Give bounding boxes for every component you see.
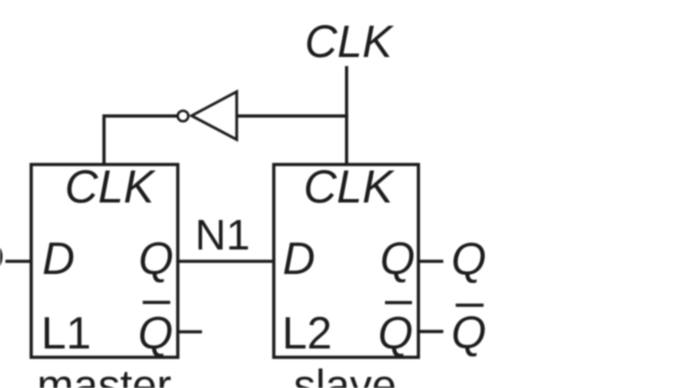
latch L1 (master) box <box>31 165 178 358</box>
pin label Qbar of L2 <box>378 301 413 359</box>
svg-text:L2: L2 <box>282 308 332 359</box>
wire CLK branch to inverter input <box>235 114 348 117</box>
wire L2 Q output stub <box>418 260 443 263</box>
svg-text:CLK: CLK <box>305 16 395 67</box>
svg-text:Q: Q <box>378 308 413 359</box>
svg-text:D: D <box>283 233 316 284</box>
wire CLK vertical drop to L2 <box>345 66 348 165</box>
svg-text:CLK: CLK <box>303 161 395 213</box>
svg-text:Q: Q <box>138 233 173 284</box>
svg-text:D: D <box>0 233 4 284</box>
pin label Qbar of L1 <box>138 301 173 359</box>
wire D input stub <box>5 260 31 263</box>
latch L2 (slave) box <box>274 165 419 358</box>
svg-text:L1: L1 <box>41 308 91 359</box>
svg-text:Q: Q <box>380 233 415 284</box>
svg-text:CLK: CLK <box>65 161 157 213</box>
wire L1 Qbar stub (unconnected) <box>178 330 202 333</box>
wire inverter output to L1 CLK pin <box>104 116 177 165</box>
svg-text:N1: N1 <box>195 212 250 260</box>
svg-text:Q: Q <box>451 307 486 358</box>
node Qbar output label <box>451 304 486 358</box>
wire L2 Qbar output stub <box>418 330 443 333</box>
svg-text:Q: Q <box>138 308 173 359</box>
svg-text:Q: Q <box>451 234 486 285</box>
svg-text:D: D <box>42 233 75 284</box>
inverter U1 <box>178 92 237 140</box>
svg-text:master: master <box>37 361 171 388</box>
svg-text:slave: slave <box>294 361 397 388</box>
wire N1 from L1.Q to L2.D <box>178 260 274 263</box>
